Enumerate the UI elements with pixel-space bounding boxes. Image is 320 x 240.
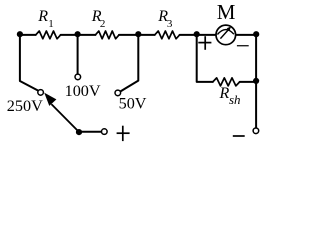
svg-text:3: 3 [167, 18, 173, 30]
meter minus sign [237, 45, 249, 47]
node C junction dot [135, 31, 141, 37]
svg-text:sh: sh [229, 92, 241, 107]
node D junction dot [194, 31, 200, 37]
wire shunt branch left [197, 35, 213, 82]
wire R1 to node B [61, 34, 96, 36]
top-right corner junction dot [253, 31, 259, 37]
svg-text:100V: 100V [65, 82, 101, 100]
wire Rsh to right rail [240, 81, 256, 83]
wire 50V branch [120, 35, 138, 92]
wire R3 to node D [180, 34, 197, 36]
meter scale arc [217, 30, 234, 35]
meter needle [220, 29, 228, 38]
wire switch wiper [52, 105, 79, 132]
svg-text:R: R [219, 85, 230, 102]
meter plus sign [198, 42, 211, 44]
wire top segment dot1 to R1 [20, 34, 36, 36]
50V tap terminal [115, 90, 121, 96]
svg-text:1: 1 [48, 18, 54, 30]
Rsh right junction dot [253, 78, 259, 84]
resistor R1 [36, 31, 61, 39]
resistor R3 [155, 31, 180, 39]
wire left rail 250V branch [20, 35, 39, 91]
wire right rail [255, 35, 257, 128]
wire meter to top-right corner [236, 34, 256, 36]
plus output terminal [102, 129, 108, 135]
node A junction dot [17, 31, 23, 37]
minus output terminal [253, 128, 259, 134]
meter M body [216, 25, 236, 45]
output plus sign [117, 132, 130, 134]
node B junction dot [75, 31, 81, 37]
meter needle arrowhead [227, 27, 231, 31]
switch wiper arrowhead [44, 93, 56, 106]
resistor R2 [95, 31, 119, 39]
output minus sign [233, 135, 245, 137]
svg-text:R: R [37, 8, 48, 25]
resistor Rsh [213, 78, 240, 86]
250V tap terminal [38, 90, 44, 96]
wire 100V branch [77, 35, 79, 74]
wire node D to meter [197, 34, 216, 36]
wire switch pole to plus terminal [79, 131, 101, 133]
100V tap terminal [75, 74, 81, 80]
svg-text:250V: 250V [7, 97, 43, 115]
svg-text:50V: 50V [119, 95, 147, 113]
wire R2 to node C [119, 34, 155, 36]
switch pole junction dot [76, 129, 82, 135]
svg-text:2: 2 [100, 18, 106, 30]
svg-text:M: M [217, 0, 236, 24]
